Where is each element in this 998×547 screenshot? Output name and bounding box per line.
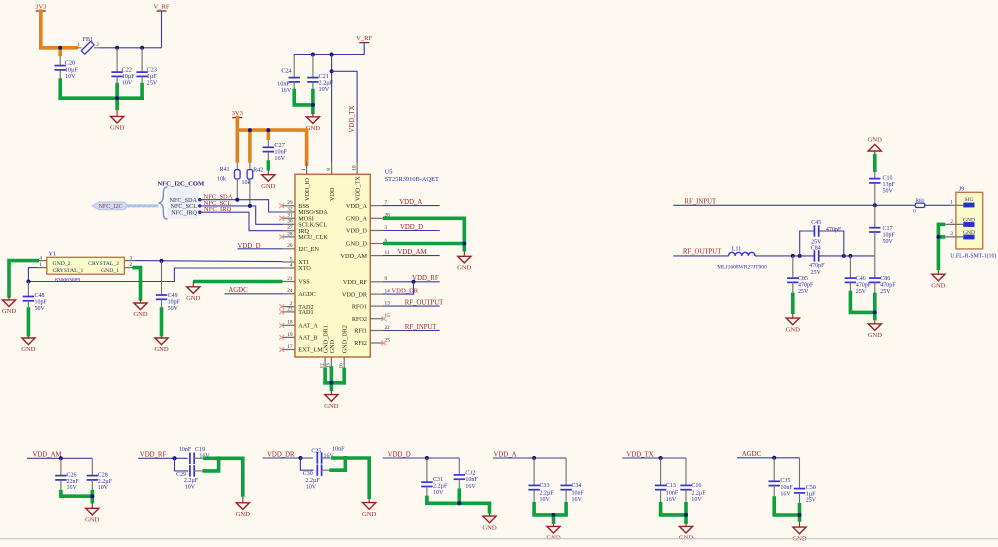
svg-text:VDD_DR: VDD_DR <box>267 451 295 458</box>
junction <box>298 456 302 460</box>
svg-text:EXT_LM: EXT_LM <box>298 347 323 354</box>
svg-text:19: 19 <box>287 332 293 338</box>
wire VDD_TX to pin 10 <box>332 71 358 162</box>
svg-text:10k: 10k <box>242 180 251 186</box>
svg-text:830063089: 830063089 <box>55 277 80 283</box>
svg-text:10pF: 10pF <box>883 233 896 239</box>
wire C19 to GND (green) <box>203 458 245 497</box>
svg-text:10V: 10V <box>306 485 317 491</box>
svg-text:GND: GND <box>261 183 276 190</box>
pin 17 EXT_LM <box>279 344 323 354</box>
svg-text:10V: 10V <box>691 497 702 503</box>
svg-text:24: 24 <box>287 288 293 294</box>
wire C48 to GND (green) <box>27 307 31 336</box>
svg-text:VDD_IO: VDD_IO <box>304 177 311 201</box>
svg-text:C35: C35 <box>780 478 790 484</box>
wire RF_OUTPUT <box>383 305 440 307</box>
svg-text:C16: C16 <box>691 483 701 489</box>
ground <box>110 110 125 131</box>
svg-text:25V: 25V <box>806 498 817 504</box>
junction <box>311 103 315 107</box>
svg-text:NFC_I2C: NFC_I2C <box>98 204 122 210</box>
svg-text:28: 28 <box>287 231 293 237</box>
svg-text:29: 29 <box>287 200 293 206</box>
svg-text:L11: L11 <box>732 245 742 252</box>
wire VSS to GND (green) <box>193 280 283 284</box>
svg-text:VDD_DR: VDD_DR <box>342 291 368 298</box>
junction <box>26 280 30 284</box>
svg-text:GND: GND <box>786 326 801 333</box>
junction <box>425 456 429 460</box>
wire J9 GND pins (green) <box>937 223 946 271</box>
junction <box>248 128 252 132</box>
wire crystal pin2 to GND (green) <box>134 268 140 299</box>
ground <box>186 282 201 303</box>
svg-text:RF_INPUT: RF_INPUT <box>684 198 717 205</box>
svg-text:TAD1: TAD1 <box>298 309 313 316</box>
svg-text:470pF: 470pF <box>880 283 896 289</box>
svg-text:VDD_D: VDD_D <box>346 228 367 235</box>
svg-text:23: 23 <box>287 306 293 312</box>
svg-text:10V: 10V <box>98 485 109 491</box>
svg-text:2: 2 <box>96 42 99 48</box>
svg-text:16V: 16V <box>666 497 677 503</box>
svg-text:470pF: 470pF <box>826 227 842 233</box>
wire C85 to GND (green) <box>791 293 795 314</box>
pin 30 SCLK/SCL <box>283 219 328 229</box>
svg-text:RF_OUTPUT: RF_OUTPUT <box>405 299 444 306</box>
connector J9 U.FL-R-SMT-1(10) <box>945 186 996 260</box>
junction <box>115 46 119 50</box>
svg-text:470pF: 470pF <box>798 283 814 289</box>
pin 14 VDD_DR <box>342 289 390 299</box>
svg-text:25V: 25V <box>811 270 822 276</box>
svg-text:Y1: Y1 <box>49 251 57 258</box>
power 3V3 <box>35 3 47 11</box>
wire GND bus (green) <box>58 80 143 110</box>
svg-text:AAT_B: AAT_B <box>298 335 317 342</box>
wire to GND (green) <box>659 502 686 524</box>
svg-text:16: 16 <box>338 363 344 369</box>
svg-text:GND: GND <box>186 295 201 302</box>
svg-text:AGDC: AGDC <box>228 287 248 294</box>
wire crystal pin3 to XTI <box>134 261 282 262</box>
ground <box>261 171 276 190</box>
svg-text:RFI2: RFI2 <box>354 340 367 347</box>
pin 20 I2C_EN <box>283 243 320 253</box>
ground <box>679 524 694 542</box>
wire pin4 to GND (green) <box>9 261 37 296</box>
svg-text:V_RF: V_RF <box>356 35 372 42</box>
capacitor C84 <box>809 246 825 277</box>
svg-text:10k: 10k <box>217 177 226 183</box>
svg-text:C46: C46 <box>856 276 866 282</box>
capacitor C30 <box>300 458 331 491</box>
capacitor C16 <box>680 458 706 503</box>
resistor R41 <box>217 163 240 200</box>
ground <box>362 499 377 518</box>
svg-text:2.2µF: 2.2µF <box>184 478 199 484</box>
capacitor C27 <box>263 140 288 162</box>
op-amp U5 ST25R3916B-AQET IC body <box>295 169 439 358</box>
crystal Y1 830063089 <box>37 251 134 284</box>
resistor R42 <box>242 163 264 206</box>
svg-text:2.2µF: 2.2µF <box>540 491 555 497</box>
svg-text:2.2µF: 2.2µF <box>691 491 706 497</box>
junction <box>552 513 556 517</box>
capacitor C10 <box>869 172 895 205</box>
wire GND to C10 (green) <box>873 154 877 172</box>
wire to GND (green) <box>532 502 568 524</box>
svg-text:C30: C30 <box>303 471 313 477</box>
svg-text:50V: 50V <box>35 306 46 312</box>
svg-text:GND: GND <box>868 137 883 144</box>
svg-text:8: 8 <box>326 168 332 171</box>
inductor L11 MLJ1608WR27JT000 <box>717 245 767 270</box>
svg-text:GND: GND <box>868 332 883 339</box>
svg-text:22nF: 22nF <box>67 479 80 485</box>
svg-text:GND: GND <box>236 511 251 518</box>
pin 23 TAD1 <box>279 306 313 316</box>
svg-text:R42: R42 <box>253 168 263 174</box>
junction <box>115 96 119 100</box>
svg-text:C25: C25 <box>311 448 321 454</box>
svg-text:30: 30 <box>287 219 293 225</box>
wire V_RF rail <box>294 43 364 55</box>
junction <box>58 46 62 50</box>
svg-text:10nF: 10nF <box>332 447 345 453</box>
svg-text:25: 25 <box>385 337 391 343</box>
svg-text:FB1: FB1 <box>83 36 94 43</box>
svg-text:31: 31 <box>287 213 293 219</box>
pin 15 RFO2 <box>352 313 390 323</box>
wire FB1 to V_RF <box>100 47 162 49</box>
wire C27 to GND (green) <box>267 160 270 170</box>
junction <box>412 280 416 284</box>
svg-text:C29: C29 <box>176 472 186 478</box>
svg-text:C10: C10 <box>883 176 893 182</box>
junction <box>848 254 852 258</box>
svg-text:GND: GND <box>931 282 946 289</box>
wire 3V3 to FB1 (orange) <box>41 11 76 56</box>
wire to GND (green) <box>59 490 94 504</box>
wire AGDC to pin 24 <box>225 293 283 295</box>
svg-text:U.FL-R-SMT-1(10): U.FL-R-SMT-1(10) <box>950 252 996 259</box>
capacitor C25 <box>311 447 345 464</box>
ground <box>324 391 339 410</box>
svg-text:V_RF: V_RF <box>153 3 169 10</box>
svg-text:C17: C17 <box>883 226 893 232</box>
svg-text:2.2µF: 2.2µF <box>433 484 448 490</box>
svg-text:1: 1 <box>301 168 307 171</box>
svg-text:12: 12 <box>319 363 325 369</box>
wire RF_INPUT rail <box>673 204 950 206</box>
ground <box>85 504 100 524</box>
svg-text:C49: C49 <box>168 293 178 299</box>
capacitor C20 <box>55 56 79 80</box>
wire C30 to GND (green) <box>331 458 345 470</box>
svg-text:VDD_TX: VDD_TX <box>355 176 362 201</box>
svg-text:GND: GND <box>85 517 100 524</box>
svg-text:16V: 16V <box>67 485 78 491</box>
svg-text:10nF: 10nF <box>465 477 478 483</box>
svg-text:AGDC: AGDC <box>298 291 316 298</box>
svg-text:15: 15 <box>385 313 391 319</box>
svg-text:1: 1 <box>77 42 80 48</box>
wire VDD_RF <box>383 281 440 283</box>
pin 16 GND_DR2 <box>338 325 348 369</box>
svg-text:VDD_TX: VDD_TX <box>626 451 653 458</box>
capacitor C86 <box>869 256 896 295</box>
capacitor C49 <box>156 261 181 312</box>
pin 28 MCU_CLK <box>279 231 328 241</box>
junction <box>684 513 688 517</box>
svg-text:I2C_EN: I2C_EN <box>298 246 319 253</box>
wire VDD_DR <box>383 282 414 294</box>
junction <box>772 456 776 460</box>
svg-text:10V: 10V <box>65 73 76 80</box>
svg-text:25V: 25V <box>880 289 891 295</box>
ground <box>21 337 36 354</box>
junction <box>873 203 877 207</box>
svg-text:32: 32 <box>287 206 293 212</box>
pin 3 VDD_D <box>346 225 387 235</box>
svg-text:GND: GND <box>457 265 472 272</box>
svg-text:ST25R3916B-AQET: ST25R3916B-AQET <box>385 176 439 183</box>
svg-text:GND: GND <box>2 308 17 315</box>
pin 25 RFI2 <box>354 337 390 347</box>
capacitor C48 <box>23 282 48 313</box>
svg-text:50V: 50V <box>883 188 894 194</box>
junction <box>235 198 239 202</box>
svg-text:NFC_I2C_COM: NFC_I2C_COM <box>157 181 205 188</box>
pin 6 GND_D <box>346 238 387 248</box>
svg-text:50V: 50V <box>168 306 179 312</box>
power V_RF <box>356 35 372 43</box>
junction <box>266 128 270 132</box>
pin 8 VDD <box>326 162 336 201</box>
ground <box>236 497 251 518</box>
junction <box>160 259 164 263</box>
capacitor C85 <box>787 256 814 295</box>
svg-text:RF_OUTPUT: RF_OUTPUT <box>683 249 722 256</box>
svg-text:GND: GND <box>324 403 339 410</box>
svg-text:RFO2: RFO2 <box>352 316 367 323</box>
wire VDD_D <box>383 457 460 459</box>
wire crystal pin1 to XTO <box>28 268 282 282</box>
svg-text:J9: J9 <box>959 186 965 193</box>
pin 13 RFO1 <box>352 301 390 311</box>
svg-text:16V: 16V <box>780 492 791 498</box>
pin 22 RFI1 <box>354 325 390 335</box>
capacitor C26 <box>55 458 79 491</box>
junction <box>59 456 63 460</box>
svg-text:VDD_AM: VDD_AM <box>397 249 426 256</box>
svg-text:GND: GND <box>133 311 148 318</box>
junction <box>842 254 846 258</box>
junction <box>140 46 144 50</box>
svg-text:10nF: 10nF <box>572 491 585 497</box>
svg-text:17: 17 <box>287 344 293 350</box>
wire RF_INPUT <box>383 330 440 332</box>
svg-text:VDD_AM: VDD_AM <box>32 451 61 458</box>
svg-text:U5: U5 <box>385 169 393 176</box>
wire NFC_SCL <box>200 206 283 224</box>
svg-text:VDD_A: VDD_A <box>493 451 516 458</box>
pin 29 BSS <box>279 200 310 210</box>
svg-text:2: 2 <box>950 219 953 225</box>
junction <box>798 254 802 258</box>
wire RF_OUTPUT rail <box>673 255 875 257</box>
svg-text:13pF: 13pF <box>883 182 896 188</box>
svg-text:GND: GND <box>110 125 125 132</box>
svg-text:25V: 25V <box>856 289 867 295</box>
svg-text:C13: C13 <box>666 483 676 489</box>
capacitor C50 <box>794 458 817 504</box>
wire C29 to GND (green) <box>204 458 218 471</box>
power V_RF <box>153 3 169 47</box>
junction <box>532 456 536 460</box>
pin 19 AAT_B <box>279 332 317 342</box>
wire VDD_RF <box>138 457 188 459</box>
svg-text:50V: 50V <box>883 239 894 245</box>
svg-text:NFC_IRQ: NFC_IRQ <box>171 209 197 216</box>
junction <box>311 53 315 57</box>
wire VDD_DR <box>262 457 313 459</box>
svg-text:2.2µF: 2.2µF <box>306 478 321 484</box>
svg-text:MCU_CLK: MCU_CLK <box>298 234 328 241</box>
junction <box>173 456 177 460</box>
wire VDD_TX <box>622 457 686 459</box>
svg-text:10V: 10V <box>122 80 133 87</box>
capacitor C22 <box>111 48 135 87</box>
junction <box>791 254 795 258</box>
junction <box>798 513 802 517</box>
svg-text:C84: C84 <box>811 246 821 252</box>
svg-text:10V: 10V <box>540 497 551 503</box>
svg-text:25V: 25V <box>811 239 822 245</box>
wire bottom GND pins (green) <box>323 368 346 391</box>
svg-text:CRYSTAL_2: CRYSTAL_2 <box>88 261 119 267</box>
wire GND_D (green) <box>383 217 464 252</box>
pin 9 VDD_RF <box>343 276 388 286</box>
svg-text:VDD_D: VDD_D <box>388 451 411 458</box>
capacitor C31 <box>421 458 448 496</box>
pin 21 VSS <box>283 276 311 286</box>
ground <box>457 252 472 272</box>
svg-text:C31: C31 <box>433 477 443 483</box>
wire VDD_AM <box>383 255 440 257</box>
svg-text:C32: C32 <box>465 471 475 477</box>
junction <box>343 456 347 460</box>
pin 27 IRQ <box>283 225 310 235</box>
wire to GND (green) <box>294 91 313 113</box>
svg-text:10: 10 <box>351 165 357 171</box>
harness entry NFC_I2C <box>92 202 127 210</box>
svg-text:GND_D: GND_D <box>346 241 367 248</box>
svg-text:C85: C85 <box>798 276 808 282</box>
pin 11 VDD_AM <box>341 250 390 260</box>
svg-text:VDD_RF: VDD_RF <box>412 275 439 282</box>
ground <box>133 299 148 318</box>
svg-text:470pF: 470pF <box>809 263 825 269</box>
sheet border <box>0 538 998 540</box>
svg-text:GND: GND <box>329 339 336 353</box>
svg-text:VDD_TX: VDD_TX <box>349 105 356 132</box>
svg-text:GND: GND <box>482 524 497 531</box>
svg-text:C50: C50 <box>806 485 816 491</box>
svg-text:25V: 25V <box>147 80 158 87</box>
svg-text:0: 0 <box>913 209 916 215</box>
svg-text:C26: C26 <box>67 472 77 478</box>
svg-text:VDD_RF: VDD_RF <box>140 451 167 458</box>
junction <box>330 53 334 57</box>
svg-text:10V: 10V <box>319 86 330 93</box>
junction <box>329 381 333 385</box>
power 3V3 <box>232 110 244 118</box>
svg-text:10pF: 10pF <box>35 300 48 306</box>
svg-text:3: 3 <box>950 231 953 237</box>
capacitor C24 <box>277 55 300 95</box>
svg-text:R81: R81 <box>915 198 924 204</box>
pin 4 XTO <box>283 262 312 272</box>
junction <box>462 242 466 246</box>
svg-text:MLJ1608WR27JT000: MLJ1608WR27JT000 <box>717 264 767 270</box>
capacitor C45 <box>800 220 844 256</box>
svg-text:16V: 16V <box>572 497 583 503</box>
capacitor C35 <box>769 458 794 498</box>
svg-text:RF_INPUT: RF_INPUT <box>405 324 438 331</box>
wire VDD_A <box>383 205 440 207</box>
junction <box>217 456 221 460</box>
ground <box>868 320 883 339</box>
capacitor C33 <box>528 458 554 503</box>
svg-text:VDD_AM: VDD_AM <box>341 253 368 260</box>
ferrite bead FB1 <box>76 36 100 54</box>
pin 12 GND_DR1 <box>319 325 329 369</box>
svg-text:RFI1: RFI1 <box>354 328 367 335</box>
ground <box>931 270 946 289</box>
wire to GND (green) <box>772 496 801 522</box>
capacitor C13 <box>655 458 679 503</box>
svg-text:GND: GND <box>154 346 169 353</box>
svg-text:1µF: 1µF <box>806 492 816 498</box>
svg-text:C33: C33 <box>540 483 550 489</box>
wire NFC_SDA <box>200 200 283 212</box>
svg-text:GND: GND <box>362 511 377 518</box>
pin 10 VDD_TX <box>351 162 361 201</box>
junction <box>330 69 334 73</box>
svg-text:C34: C34 <box>572 483 582 489</box>
svg-text:VDD_A: VDD_A <box>399 199 422 206</box>
ground <box>868 137 883 154</box>
wire GND_A (green) <box>383 217 464 221</box>
junction <box>457 501 461 505</box>
pin 18 AAT_A <box>279 320 318 330</box>
wire VDD_D to pin 20 <box>238 248 283 250</box>
svg-text:RFO1: RFO1 <box>352 303 367 310</box>
wire VDD_AM <box>27 457 92 459</box>
svg-text:16V: 16V <box>465 484 476 490</box>
ground <box>792 522 807 543</box>
svg-text:GND: GND <box>21 346 36 353</box>
svg-text:GND_DR2: GND_DR2 <box>342 325 349 353</box>
wire to GND (green) <box>425 488 491 513</box>
wire NFC_IRQ <box>200 212 283 231</box>
junction <box>873 310 877 314</box>
wire C46 C86 to GND (green) <box>850 293 874 321</box>
pin 1 VDD_IO <box>301 162 311 201</box>
